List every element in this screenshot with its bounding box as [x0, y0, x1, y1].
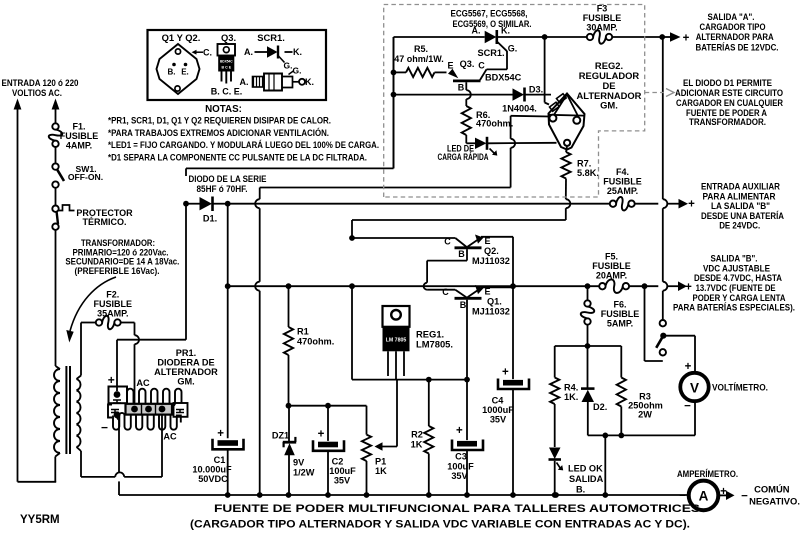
svg-text:D1.: D1.: [203, 214, 217, 224]
wire F3 to output A node: [612, 36, 663, 38]
wire riser x393 from callout frame to SCR rail: [393, 37, 395, 168]
label C1 plus: [217, 428, 224, 440]
label ENTRADA AUXILIAR text: [701, 181, 784, 231]
wire R7 to gate rail with hop over aux rail: [352, 179, 566, 239]
svg-text:FUSIBLE: FUSIBLE: [583, 13, 622, 23]
wire R5 to Q3 emitter arrow: [435, 69, 459, 79]
svg-text:VOLTÍMETRO.: VOLTÍMETRO.: [712, 382, 768, 393]
transistor Q2 MJ11032 base bar: [455, 246, 482, 249]
label 1N4004: [502, 104, 537, 114]
svg-text:DE 24VDC.: DE 24VDC.: [719, 219, 760, 230]
svg-text:B. C. E.: B. C. E.: [211, 87, 243, 97]
svg-text:A: A: [699, 489, 709, 504]
label Q1 MJ11032: [472, 307, 510, 317]
transformer T1 primary coil: [54, 369, 60, 453]
svg-text:Q3.: Q3.: [221, 32, 236, 43]
wire regulator output rail: [352, 286, 467, 379]
svg-text:E.: E.: [181, 68, 189, 77]
label PR1 plus: [108, 373, 115, 387]
svg-text:(PREFERIBLE 16Vac).: (PREFERIBLE 16Vac).: [75, 266, 160, 276]
wire R2 top: [428, 380, 430, 426]
svg-text:+: +: [685, 361, 692, 373]
svg-text:35V: 35V: [334, 476, 351, 486]
wire secondary top to F2: [77, 323, 97, 380]
label SCR1 K: [501, 26, 510, 36]
label YY5RM: [20, 514, 60, 526]
label SALIDA B text: [673, 253, 795, 313]
label SW1 OFF-ON: [68, 164, 103, 182]
diode D2: [581, 346, 595, 435]
label ENTRADA 120 o 220 VOLTIOS AC: [2, 78, 79, 98]
wire R6 to LED: [466, 135, 475, 143]
svg-text:−: −: [741, 490, 748, 502]
label TO-220 B C E: [211, 87, 243, 97]
svg-text:−: −: [101, 421, 108, 435]
label voltmeter plus: [685, 361, 692, 373]
svg-text:FUSIBLE: FUSIBLE: [603, 177, 642, 187]
svg-text:C2: C2: [332, 457, 344, 467]
junction H5 at gate riser: [349, 283, 355, 289]
svg-text:+: +: [217, 428, 224, 440]
svg-text:−: −: [679, 490, 685, 502]
svg-text:*D1 SEPARA LA COMPONENTE CC PU: *D1 SEPARA LA COMPONENTE CC PULSANTE DE …: [108, 152, 367, 163]
label F2 FUSIBLE 35AMP: [94, 290, 133, 319]
wire LED OK to rail: [552, 461, 558, 498]
label title line 2: [190, 519, 690, 531]
label SCR1: [477, 48, 504, 58]
svg-text:B.: B.: [576, 485, 585, 495]
wire SW1 to thermal protector: [55, 188, 57, 206]
label Q2 C: [444, 237, 451, 247]
junction D1 output at C1 riser: [225, 201, 231, 207]
label PR1 DIODERA DE ALTERNADOR GM: [154, 348, 218, 387]
wire REG2 riser from SCR rail: [545, 37, 549, 105]
wire R3 bottom: [620, 407, 622, 436]
label D1: [203, 214, 217, 224]
junction ground rail at LED B: [553, 492, 559, 498]
svg-text:V: V: [690, 380, 699, 395]
svg-text:1K: 1K: [411, 440, 423, 450]
svg-text:C.: C.: [203, 48, 212, 58]
wire ground rail bottom: [119, 494, 688, 496]
svg-text:COMÚN: COMÚN: [754, 484, 790, 495]
svg-text:FUSIBLE: FUSIBLE: [94, 299, 133, 309]
svg-text:PARA BATERÍAS ESPECIALES).: PARA BATERÍAS ESPECIALES).: [673, 302, 795, 313]
package SCR symbol: [244, 46, 302, 71]
svg-text:C3: C3: [455, 452, 467, 462]
fuse F5 20A: [599, 279, 629, 293]
svg-text:R7.: R7.: [577, 159, 591, 169]
package TO-3 drawing: [157, 44, 200, 94]
label Q3 C: [478, 61, 485, 71]
wire Q1 emitter to H5 node: [481, 286, 513, 288]
svg-text:LED OK: LED OK: [568, 464, 603, 474]
svg-text:30AMP.: 30AMP.: [586, 23, 617, 33]
svg-text:VOLTIOS AC.: VOLTIOS AC.: [12, 88, 62, 98]
label Q3 BDX54C: [485, 73, 522, 83]
thermal protector contact: [52, 205, 74, 230]
svg-text:1000uF: 1000uF: [482, 405, 514, 415]
LED1 carga rapida: [475, 137, 497, 156]
svg-text:PR1.: PR1.: [176, 348, 196, 358]
wire R4 top: [554, 346, 556, 378]
resistor R7 5.8K: [561, 152, 570, 179]
svg-text:YY5RM: YY5RM: [20, 514, 60, 526]
zener DZ1 9V: [283, 406, 296, 495]
wire meter rail to ground rail: [604, 435, 606, 495]
wire D1 cathode to C1 node: [214, 203, 228, 205]
wire Q2 collector lead: [352, 238, 467, 247]
svg-text:A.: A.: [240, 77, 249, 87]
package SCR stud drawing: [240, 66, 315, 91]
svg-text:G.: G.: [508, 44, 518, 54]
wire R1 top: [288, 286, 290, 327]
svg-text:K.: K.: [293, 47, 302, 57]
label LED DE CARGA RAPIDA: [438, 144, 489, 163]
label Q1 C: [442, 287, 449, 297]
svg-text:B: B: [460, 300, 467, 310]
junction ground rail at P1: [364, 492, 370, 498]
svg-text:(CARGADOR TIPO ALTERNADOR Y SA: (CARGADOR TIPO ALTERNADOR Y SALIDA VDC V…: [190, 519, 690, 531]
wire AC input left (hot) with up arrow: [14, 99, 22, 482]
svg-text:Q2.: Q2.: [484, 246, 499, 256]
wire C3 riser: [466, 380, 468, 441]
svg-text:+: +: [318, 429, 325, 441]
junction reg rail at R2: [426, 377, 432, 383]
resistor R3 250ohm: [617, 378, 626, 407]
svg-text:FUSIBLE: FUSIBLE: [592, 261, 631, 271]
junction output A: [659, 34, 665, 40]
label ammeter plus: [720, 486, 727, 498]
svg-text:C4: C4: [492, 396, 505, 406]
rectifier PR1 terminal dots: [114, 391, 166, 418]
svg-text:1K.: 1K.: [564, 392, 578, 402]
svg-text:GM.: GM.: [177, 377, 194, 387]
wire R1 bottom to DZ1 node: [288, 355, 290, 406]
label SALIDA A text: [696, 11, 779, 52]
svg-text:+: +: [683, 33, 690, 45]
rectifier PR1 heatsink: [108, 387, 188, 430]
svg-text:NOTAS:: NOTAS:: [205, 104, 242, 115]
rectifier PR1 diode bar: [126, 404, 173, 415]
wire F1 to SW1: [55, 147, 57, 163]
svg-text:470ohm.: 470ohm.: [476, 119, 513, 129]
wire REG2 bottom to R7: [566, 146, 567, 152]
svg-text:SCR1.: SCR1.: [477, 48, 504, 58]
svg-text:B C E: B C E: [222, 66, 232, 70]
svg-text:NEGATIVO.: NEGATIVO.: [749, 496, 800, 507]
regulator REG2 mount holes: [549, 115, 580, 146]
svg-text:R1: R1: [297, 327, 309, 337]
junction DZ1 row at C2: [325, 403, 331, 409]
svg-text:OFF-ON.: OFF-ON.: [68, 172, 103, 182]
label F6 FUSIBLE 5AMP: [601, 300, 640, 329]
svg-text:BATERÍAS DE 12VDC.: BATERÍAS DE 12VDC.: [696, 41, 779, 52]
wire LED to REG2 bottom with hop: [488, 142, 557, 145]
label DIODO DE LA SERIE 85HF o 70HF: [189, 173, 267, 194]
label LED OK SALIDA B: [568, 464, 604, 495]
label SCR1 pkg: [257, 32, 285, 43]
svg-text:SCR1.: SCR1.: [257, 32, 285, 43]
arrow common negative: [719, 490, 749, 502]
wire hop aux rail under R7 leg: [566, 199, 571, 208]
wire AC riser down to ground rail with hops: [255, 188, 260, 496]
svg-text:GM.: GM.: [600, 100, 618, 111]
label voltmeter minus: [684, 401, 691, 413]
fuse F4 25A: [610, 197, 635, 211]
junction D2 top: [585, 343, 591, 349]
svg-text:ENTRADA 120 ó 220: ENTRADA 120 ó 220: [2, 78, 79, 88]
svg-text:C: C: [444, 237, 451, 247]
junction output B: [642, 283, 648, 289]
label DZ1: [272, 431, 289, 441]
label TO-3 B E: [168, 68, 189, 77]
svg-text:E: E: [447, 61, 453, 71]
svg-text:LM 7805: LM 7805: [386, 338, 407, 344]
svg-text:BDX54C: BDX54C: [485, 73, 522, 83]
junction DZ1 node: [286, 403, 292, 409]
label Q3: [460, 59, 475, 69]
label title line 1: [214, 503, 701, 515]
switch SW1: [52, 163, 64, 187]
transistor Q1 MJ11032 base bar: [455, 297, 482, 300]
junction H5 at R1: [286, 283, 292, 289]
thyristor SCR1: [485, 30, 507, 51]
svg-text:R5.: R5.: [414, 44, 428, 54]
wire D1 anode from PR1 riser: [183, 201, 199, 207]
wire F2 to PR1 AC top with hop: [121, 323, 139, 407]
label Q1 B: [460, 300, 467, 310]
svg-text:FUSIBLE: FUSIBLE: [60, 131, 99, 141]
svg-text:E: E: [484, 287, 490, 297]
wire P1 bottom: [366, 461, 368, 495]
wire C1 riser: [227, 204, 229, 439]
wire AC input right with up arrow: [52, 99, 60, 124]
svg-text:+: +: [456, 425, 463, 437]
wire PR1 plus up-left riser to D1 node: [117, 204, 186, 391]
package info box frame: [148, 30, 327, 100]
svg-text:K.: K.: [305, 77, 314, 87]
transformer T1 core: [66, 366, 70, 454]
wire main positive rail H5: [228, 285, 659, 287]
svg-text:C: C: [478, 61, 485, 71]
svg-text:Q1 Y Q2.: Q1 Y Q2.: [162, 32, 201, 43]
wire switch top riser with hops: [663, 37, 668, 320]
voltmeter V: [680, 373, 708, 401]
label Q2 B: [458, 249, 465, 259]
label TRANSFORMADOR notes: [65, 238, 179, 276]
label D2: [593, 402, 607, 412]
label Q1: [487, 297, 502, 307]
junction ground rail at C2: [325, 492, 331, 498]
ammeter A: [689, 481, 719, 511]
wire PR1 minus down to ground rail: [117, 418, 119, 495]
wire secondary bottom to PR1 AC right: [77, 412, 163, 477]
svg-text:*LED1 = FIJO CARGANDO. Y MODUL: *LED1 = FIJO CARGANDO. Y MODULARÁ LUEGO …: [108, 139, 379, 151]
svg-text:1K: 1K: [375, 466, 387, 476]
wire Q1 base down to reg output rail: [466, 300, 468, 380]
label AMPERIMETRO: [677, 468, 738, 479]
svg-text:20AMP.: 20AMP.: [596, 271, 627, 281]
wire voltmeter bottom rail: [588, 402, 695, 436]
potentiometer P1 1K: [362, 380, 397, 461]
label SCR1 G: [508, 44, 518, 54]
label ammeter minus: [679, 490, 685, 502]
svg-text:G.: G.: [284, 61, 293, 71]
arrow TO-3 C label: [192, 48, 213, 58]
wire output B node to switch bottom: [645, 286, 663, 361]
label R2 1K: [411, 430, 423, 450]
wire callout frame above D1: [186, 168, 394, 176]
label F3 FUSIBLE 30AMP: [583, 4, 622, 33]
svg-text:*PR1, SCR1, D1, Q1 Y Q2 REQUIE: *PR1, SCR1, D1, Q1 Y Q2 REQUIEREN DISIPA…: [108, 115, 331, 126]
junction H5 at F6: [585, 283, 591, 289]
switch S2 voltmeter: [656, 320, 666, 355]
junction ground rail at aux riser: [257, 492, 263, 498]
label R6 470ohm: [476, 110, 513, 129]
LED OK salida B: [549, 448, 564, 471]
label Q3 pkg: [221, 32, 236, 43]
svg-text:AC: AC: [163, 432, 177, 442]
svg-text:FUSIBLE: FUSIBLE: [601, 309, 640, 319]
label R1 470ohm: [297, 327, 334, 347]
transistor Q3 BDX54C base bar: [453, 80, 481, 83]
wire AC riser horizontal: [260, 187, 511, 189]
label Q3 B: [458, 83, 465, 93]
label D3: [529, 85, 543, 95]
label VOLTIMETRO: [712, 382, 768, 393]
transistor Q1 emitter arrow: [468, 285, 484, 297]
svg-text:AC: AC: [136, 378, 150, 388]
svg-text:P1: P1: [375, 457, 386, 467]
label C4 plus: [502, 367, 509, 379]
svg-text:C1: C1: [214, 455, 226, 465]
svg-text:F6.: F6.: [613, 300, 626, 310]
svg-text:ECG5569, O SIMILAR.: ECG5569, O SIMILAR.: [453, 18, 532, 29]
svg-text:ECG5567, ECG5568,: ECG5567, ECG5568,: [451, 8, 528, 19]
label R7 5.8K: [577, 159, 599, 179]
svg-text:E: E: [484, 236, 490, 246]
junction H5 at C4 riser: [510, 283, 516, 289]
svg-text:5AMP.: 5AMP.: [607, 319, 633, 329]
svg-text:470ohm.: 470ohm.: [297, 337, 334, 347]
svg-text:TÉRMICO.: TÉRMICO.: [83, 217, 127, 227]
dashed addon circuit box: [384, 5, 645, 198]
arrow output B: [668, 281, 688, 291]
resistor R6 470ohm: [462, 106, 471, 135]
resistor R4 1K: [550, 378, 559, 405]
junction ground rail at DZ1: [286, 492, 292, 498]
junction ground rail at meter branch: [602, 492, 608, 498]
svg-text:ALTERNADOR: ALTERNADOR: [154, 367, 218, 377]
svg-text:−: −: [684, 401, 691, 413]
label NOTAS title: [205, 104, 242, 115]
svg-text:100uF: 100uF: [329, 466, 356, 476]
label Q2: [484, 246, 499, 256]
regulator REG1 LM7805 package: [383, 306, 410, 380]
svg-text:DZ1: DZ1: [272, 431, 289, 441]
fuse F2 35A: [96, 316, 121, 330]
svg-text:+: +: [688, 199, 695, 211]
svg-text:A.: A.: [244, 47, 253, 57]
junction gate rail at Q2 collector: [349, 235, 355, 241]
label R4 1K: [564, 383, 578, 403]
wire REG2 AC terminal to riser: [511, 116, 550, 188]
svg-text:C: C: [442, 287, 449, 297]
junction ground rail at C4: [510, 492, 516, 498]
junction reg rail at C3: [464, 377, 470, 383]
label PROTECTOR TERMICO: [76, 208, 133, 227]
wire R4 D2 R3 top rail: [555, 345, 622, 347]
svg-text:9V: 9V: [293, 458, 305, 468]
label Q2 E: [484, 236, 490, 246]
label DZ1 values: [293, 458, 315, 478]
label COMUN NEGATIVO: [749, 484, 800, 507]
svg-text:FUENTE DE PODER MULTIFUNCIONAL: FUENTE DE PODER MULTIFUNCIONAL PARA TALL…: [214, 503, 701, 515]
svg-text:*PARA TRABAJOS EXTREMOS ADICIO: *PARA TRABAJOS EXTREMOS ADICIONAR VENTIL…: [108, 127, 329, 139]
capacitor C2 100uF 35V: [313, 440, 344, 495]
wire F4 to aux arrow: [635, 203, 659, 205]
svg-text:F2.: F2.: [106, 290, 119, 300]
transformer T1 secondary coil: [77, 379, 81, 447]
label PR1 minus: [101, 421, 108, 435]
svg-text:Q3.: Q3.: [460, 59, 475, 69]
label Q1 E: [484, 287, 490, 297]
svg-text:D3.: D3.: [529, 85, 543, 95]
label F4 FUSIBLE 25AMP: [603, 167, 642, 196]
label C2 values: [329, 457, 356, 486]
svg-text:1N4004.: 1N4004.: [502, 104, 537, 114]
svg-text:F4.: F4.: [616, 167, 629, 177]
regulator REG2 body: [549, 94, 585, 150]
diode D3 1N4004: [513, 88, 525, 102]
svg-text:MJ11032: MJ11032: [472, 256, 510, 266]
label P1 1K: [375, 457, 387, 477]
label PR1 AC top: [136, 378, 150, 388]
svg-text:B.: B.: [168, 68, 176, 77]
junction SCR rail at REG2 riser: [542, 34, 548, 40]
svg-text:SALIDA: SALIDA: [569, 474, 604, 484]
label SCR1 A: [472, 26, 481, 36]
svg-text:F5.: F5.: [605, 252, 618, 262]
label F1 FUSIBLE 4AMP: [60, 122, 99, 151]
label C1 values: [192, 455, 232, 484]
wire Q3 base down with hop over D3 row: [466, 82, 471, 106]
wire Q3 collector to SCR gate: [480, 51, 507, 80]
wire R5 left stub: [394, 71, 407, 73]
fuse F6 5A: [581, 286, 595, 346]
label C3 plus: [456, 425, 463, 437]
junction x393 at R5: [391, 70, 397, 76]
svg-text:+: +: [685, 282, 692, 294]
wire R2 bottom: [428, 454, 430, 496]
junction ground rail at C3: [464, 492, 470, 498]
resistor R5 47ohm 1W: [406, 68, 435, 77]
wire Q3 collector row to D3: [394, 94, 513, 96]
label REG2 REGULADOR DE ALTERNADOR GM: [577, 60, 642, 111]
label R3 250ohm 2W: [628, 392, 663, 420]
wire C4 riser: [512, 237, 514, 379]
svg-text:35AMP.: 35AMP.: [97, 309, 128, 319]
junction ground rail at C1: [225, 492, 231, 498]
label ECG types: [451, 8, 532, 30]
wire x393 to R5: [393, 37, 395, 168]
svg-text:1/2W: 1/2W: [293, 468, 315, 478]
dashed callout arrow to text: [645, 89, 674, 97]
wire Q2 base loop to Q1 collector with hop: [424, 249, 467, 297]
label NOTAS lines: [108, 115, 379, 163]
wire protector to transformer primary: [56, 230, 61, 369]
